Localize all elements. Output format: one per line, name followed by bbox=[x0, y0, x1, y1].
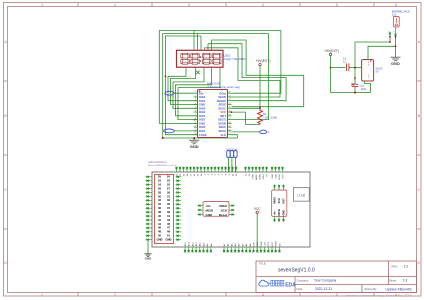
svg-text:SCK: SCK bbox=[221, 208, 228, 212]
svg-text:TITLE:: TITLE: bbox=[259, 262, 267, 266]
svg-text:RST: RST bbox=[272, 241, 274, 246]
svg-text:C: C bbox=[417, 188, 420, 192]
svg-text:CLK: CLK bbox=[233, 149, 238, 151]
svg-text:2: 2 bbox=[114, 293, 116, 297]
svg-text:IORF: IORF bbox=[276, 240, 278, 246]
svg-text:29: 29 bbox=[167, 190, 170, 194]
ARDUINOMEGA top pin stubs and labels bbox=[175, 167, 283, 173]
svg-text:17: 17 bbox=[228, 118, 230, 120]
svg-text:Your Company: Your Company bbox=[314, 279, 337, 283]
wire bbox=[207, 44, 209, 49]
svg-text:12V: 12V bbox=[392, 13, 397, 16]
svg-text:43: 43 bbox=[167, 218, 170, 222]
connector USB bbox=[294, 188, 310, 202]
svg-text:MISO: MISO bbox=[273, 197, 277, 204]
net port CS (flag above Arduino) bbox=[230, 149, 234, 158]
svg-text:3: 3 bbox=[188, 293, 190, 297]
svg-text:27: 27 bbox=[167, 186, 170, 190]
svg-text:(Chip for driving seven seg): (Chip for driving seven seg) bbox=[207, 85, 240, 89]
logo JLC EDA bbox=[259, 280, 296, 288]
svg-text:MOSI: MOSI bbox=[206, 208, 214, 212]
junction bbox=[194, 119, 196, 121]
wire bbox=[159, 29, 281, 31]
svg-text:SCK: SCK bbox=[275, 173, 277, 178]
svg-text:1: 1 bbox=[41, 3, 43, 7]
svg-text:20: 20 bbox=[228, 107, 230, 109]
wire bbox=[165, 76, 197, 134]
svg-text:GND: GND bbox=[166, 237, 172, 241]
wire bbox=[173, 69, 204, 108]
svg-text:MOSI: MOSI bbox=[277, 209, 281, 216]
svg-text:24: 24 bbox=[158, 182, 161, 186]
svg-text:DIG6: DIG6 bbox=[199, 106, 206, 110]
svg-text:30: 30 bbox=[158, 194, 161, 198]
svg-text:6: 6 bbox=[195, 110, 196, 112]
svg-text:oshwhub.com/kitten/sevenseg |: oshwhub.com/kitten/sevenseg | Powered By… bbox=[345, 294, 412, 298]
wire bbox=[205, 48, 281, 97]
header P1 pin stubs bbox=[146, 176, 182, 241]
svg-text:LOAD: LOAD bbox=[199, 133, 207, 137]
junction bbox=[354, 77, 356, 79]
svg-text:+5v: +5v bbox=[206, 204, 211, 208]
net port DIN (oval flag) bbox=[165, 91, 174, 95]
svg-text:21: 21 bbox=[228, 103, 230, 105]
svg-text:ISET: ISET bbox=[220, 114, 226, 118]
wire bbox=[178, 69, 220, 119]
label LED1 bbox=[224, 53, 248, 61]
junction bbox=[389, 36, 391, 38]
svg-text:5: 5 bbox=[336, 3, 338, 7]
wire bbox=[231, 158, 233, 173]
junction bbox=[389, 41, 391, 43]
svg-text:MAX7219: MAX7219 bbox=[207, 82, 220, 86]
svg-text:4: 4 bbox=[262, 3, 264, 7]
svg-text:SCL0: SCL0 bbox=[263, 173, 265, 179]
svg-text:36: 36 bbox=[158, 206, 161, 210]
power flag +5V(EXT) bbox=[256, 59, 271, 66]
junction bbox=[162, 137, 164, 139]
svg-text:D: D bbox=[4, 261, 7, 265]
svg-text:22: 22 bbox=[228, 99, 230, 101]
connector CN1 BARRELJACK bbox=[388, 9, 411, 33]
svg-text:SDA0: SDA0 bbox=[258, 173, 261, 179]
svg-text:5: 5 bbox=[336, 293, 338, 297]
junction bbox=[395, 45, 397, 47]
net port CLK (flag above Arduino) bbox=[233, 149, 238, 158]
wire bbox=[194, 135, 237, 138]
svg-text:45: 45 bbox=[167, 222, 170, 226]
label U1 MAX7219 bbox=[207, 82, 240, 90]
svg-text:SEGE: SEGE bbox=[219, 103, 227, 107]
svg-text:GND: GND bbox=[157, 237, 163, 241]
svg-text:22: 22 bbox=[158, 179, 161, 183]
svg-text:41: 41 bbox=[167, 214, 170, 218]
svg-text:9: 9 bbox=[195, 122, 196, 124]
svg-text:RST: RST bbox=[282, 198, 286, 204]
svg-text:DIG4: DIG4 bbox=[199, 99, 206, 103]
svg-text:16: 16 bbox=[228, 122, 230, 124]
label U3 SOHC 5V bbox=[376, 67, 383, 73]
svg-text:51: 51 bbox=[167, 234, 170, 238]
svg-text:AREF: AREF bbox=[255, 173, 258, 179]
svg-text:37: 37 bbox=[167, 206, 170, 210]
svg-text:sevenSegV1.0.0: sevenSegV1.0.0 bbox=[278, 267, 315, 273]
svg-text:14: 14 bbox=[228, 129, 230, 131]
svg-text:VCC: VCC bbox=[254, 207, 261, 211]
wire bbox=[355, 42, 390, 68]
junction bbox=[231, 111, 233, 113]
svg-text:GND: GND bbox=[391, 61, 400, 66]
wire bbox=[395, 37, 397, 55]
svg-text:5V: 5V bbox=[376, 70, 379, 73]
svg-text:4 digit 7 SEGMENT: 4 digit 7 SEGMENT bbox=[224, 57, 248, 61]
svg-text:12: 12 bbox=[194, 133, 196, 135]
wire bbox=[354, 68, 356, 84]
watermark url bbox=[345, 294, 412, 298]
wire bbox=[330, 56, 332, 93]
wire bbox=[227, 158, 229, 173]
svg-text:44: 44 bbox=[158, 222, 161, 226]
svg-text:SEGC: SEGC bbox=[218, 106, 226, 110]
svg-text:Reset: Reset bbox=[219, 213, 227, 217]
svg-text:1: 1 bbox=[195, 92, 196, 94]
wire bbox=[232, 33, 269, 119]
wire bbox=[168, 69, 198, 100]
junction bbox=[395, 36, 397, 38]
svg-text:SEGB: SEGB bbox=[218, 121, 226, 125]
svg-text:DIG7: DIG7 bbox=[199, 118, 206, 122]
svg-text:5V: 5V bbox=[158, 175, 161, 179]
svg-text:42: 42 bbox=[158, 218, 161, 222]
svg-text:MISO: MISO bbox=[219, 204, 227, 208]
wire bbox=[163, 137, 195, 139]
svg-text:Uptown Kitten453: Uptown Kitten453 bbox=[386, 287, 412, 291]
wire bbox=[162, 33, 164, 138]
svg-text:ARDUINOMEGA: ARDUINOMEGA bbox=[148, 161, 167, 164]
junction bbox=[354, 92, 356, 94]
svg-text:DOut: DOut bbox=[219, 91, 226, 95]
svg-text:GND: GND bbox=[261, 241, 263, 246]
junction bbox=[330, 67, 332, 69]
label R1 bbox=[263, 112, 277, 120]
svg-text:2: 2 bbox=[195, 95, 196, 97]
wire bbox=[232, 131, 260, 133]
wire bbox=[174, 92, 193, 94]
svg-text:8: 8 bbox=[195, 118, 196, 120]
junction bbox=[165, 75, 167, 77]
svg-text:C: C bbox=[4, 188, 7, 192]
ground GND2 bbox=[144, 252, 151, 256]
svg-text:GND: GND bbox=[252, 174, 254, 179]
svg-text:1.0: 1.0 bbox=[404, 265, 409, 269]
wire bbox=[349, 67, 362, 69]
wire bbox=[234, 158, 236, 173]
wire bbox=[232, 112, 261, 124]
title block text bbox=[259, 262, 412, 292]
svg-text:Arduino-MEGA2560_rev3-ed...: Arduino-MEGA2560_rev3-ed... bbox=[148, 164, 178, 167]
svg-text:VIN: VIN bbox=[253, 242, 255, 246]
net port DIN (flag above Arduino) bbox=[227, 149, 231, 158]
svg-text:DIG2: DIG2 bbox=[199, 110, 206, 114]
wire bbox=[389, 37, 391, 42]
svg-text:25: 25 bbox=[167, 182, 170, 186]
svg-text:7: 7 bbox=[195, 114, 196, 116]
svg-text:28: 28 bbox=[158, 190, 161, 194]
wire bbox=[354, 87, 356, 93]
net port DOUT (oval flag, net 4) bbox=[260, 130, 270, 134]
header ICSP2 (right, vertical) bbox=[272, 185, 287, 223]
svg-text:5V: 5V bbox=[167, 175, 170, 179]
svg-text:DIG5: DIG5 bbox=[199, 125, 206, 129]
svg-text:5: 5 bbox=[195, 107, 196, 109]
svg-text:SCK: SCK bbox=[277, 198, 281, 204]
wire bbox=[147, 241, 149, 253]
svg-text:3: 3 bbox=[195, 99, 196, 101]
junction bbox=[259, 107, 261, 109]
wire bbox=[232, 30, 281, 93]
wire bbox=[200, 36, 202, 49]
svg-text:+5v: +5v bbox=[273, 211, 277, 216]
svg-text:GND: GND bbox=[199, 103, 205, 107]
svg-text:EDA: EDA bbox=[285, 282, 296, 288]
svg-text:SEGD: SEGD bbox=[218, 95, 226, 99]
wire bbox=[212, 40, 304, 107]
svg-text:1: 1 bbox=[41, 293, 43, 297]
regulator U3 78M05 bbox=[358, 56, 374, 82]
svg-text:VCC: VCC bbox=[220, 110, 226, 114]
svg-text:15: 15 bbox=[228, 126, 230, 128]
wire bbox=[364, 81, 370, 93]
svg-text:38: 38 bbox=[158, 210, 161, 214]
svg-text:2: 2 bbox=[368, 77, 369, 79]
svg-text:4: 4 bbox=[262, 293, 264, 297]
driver IC U1 MAX7219 bbox=[194, 90, 232, 138]
svg-text:Drawn By:: Drawn By: bbox=[365, 287, 378, 291]
ARDUINOMEGA bottom pin stubs and labels bbox=[184, 247, 281, 253]
svg-text:SEGF: SEGF bbox=[219, 125, 227, 129]
svg-text:10uF: 10uF bbox=[361, 88, 367, 91]
svg-text:GND: GND bbox=[206, 213, 214, 217]
4-digit 7-segment display LED1 bbox=[177, 49, 224, 70]
svg-text:31: 31 bbox=[167, 194, 170, 198]
svg-text:1/1: 1/1 bbox=[403, 279, 408, 283]
svg-text:Company:: Company: bbox=[297, 278, 310, 282]
svg-text:13: 13 bbox=[228, 133, 230, 135]
junction bbox=[354, 67, 356, 69]
wire output rail bbox=[331, 92, 371, 94]
resistor R1 bbox=[258, 108, 263, 125]
svg-text:+5V(EXT): +5V(EXT) bbox=[256, 59, 271, 63]
svg-text:3: 3 bbox=[188, 3, 190, 7]
wire bbox=[163, 32, 269, 34]
power flag VCC bbox=[254, 207, 261, 214]
svg-text:40: 40 bbox=[158, 214, 161, 218]
wire bbox=[174, 130, 197, 132]
capacitor C1 bbox=[331, 63, 362, 71]
ground GND1 bbox=[189, 138, 199, 144]
header ICSP1 (middle) bbox=[198, 202, 235, 217]
svg-text:34: 34 bbox=[158, 202, 161, 206]
wire bbox=[208, 44, 286, 101]
svg-text:4: 4 bbox=[368, 64, 369, 66]
svg-text:24: 24 bbox=[228, 92, 230, 94]
svg-text:CLK: CLK bbox=[220, 133, 226, 137]
net port LOAD (oval flag) bbox=[164, 129, 175, 133]
wire bbox=[197, 33, 199, 48]
wire bbox=[193, 30, 195, 48]
svg-text:DIG0: DIG0 bbox=[199, 95, 206, 99]
svg-text:USB: USB bbox=[297, 193, 305, 198]
wire bbox=[159, 30, 197, 123]
svg-text:SEGA: SEGA bbox=[218, 129, 226, 133]
svg-text:35: 35 bbox=[167, 202, 170, 206]
wire bbox=[368, 46, 396, 58]
svg-text:GND: GND bbox=[145, 257, 151, 261]
label C1 bbox=[343, 56, 347, 63]
svg-text:49: 49 bbox=[167, 230, 170, 234]
svg-text:4: 4 bbox=[195, 103, 196, 105]
svg-text:DIG3: DIG3 bbox=[199, 114, 206, 118]
wire bbox=[259, 66, 261, 108]
svg-text:6: 6 bbox=[395, 3, 397, 7]
svg-text:+5V: +5V bbox=[265, 242, 267, 246]
svg-text:46: 46 bbox=[158, 226, 161, 230]
svg-text:GND: GND bbox=[272, 174, 274, 179]
svg-text:REV:: REV: bbox=[392, 264, 398, 268]
svg-text:2022-12-21: 2022-12-21 bbox=[315, 287, 332, 291]
title block bbox=[256, 261, 417, 293]
wire bbox=[256, 214, 258, 253]
wire bbox=[165, 36, 201, 76]
svg-text:SEGG: SEGG bbox=[218, 118, 226, 122]
svg-text:18: 18 bbox=[228, 114, 230, 116]
no-connect marker on display bbox=[196, 71, 200, 75]
svg-text:33: 33 bbox=[167, 198, 170, 202]
svg-text:GND: GND bbox=[190, 144, 199, 149]
svg-text:47: 47 bbox=[167, 226, 170, 230]
capacitor C2 bbox=[351, 68, 358, 93]
svg-text:2: 2 bbox=[114, 3, 116, 7]
label C2 bbox=[361, 84, 367, 91]
svg-text:DIG1: DIG1 bbox=[199, 129, 206, 133]
svg-text:RST: RST bbox=[282, 173, 284, 178]
svg-text:LED1: LED1 bbox=[224, 53, 232, 57]
svg-text:Sheet:: Sheet: bbox=[389, 278, 397, 282]
wire bbox=[389, 28, 397, 37]
wire bbox=[171, 69, 198, 104]
module ARDUINOMEGA board outline bbox=[152, 172, 310, 247]
ground GND3 bbox=[391, 55, 401, 61]
svg-text:19: 19 bbox=[228, 110, 230, 112]
svg-text:GND: GND bbox=[282, 210, 286, 216]
svg-text:GND: GND bbox=[199, 121, 205, 125]
svg-text:10: 10 bbox=[194, 126, 196, 128]
module U2 ARDUINOMEGA label bbox=[148, 161, 178, 167]
svg-text:23: 23 bbox=[167, 179, 170, 183]
svg-text:Date:: Date: bbox=[297, 287, 304, 291]
svg-text:26: 26 bbox=[158, 186, 161, 190]
junction bbox=[193, 137, 195, 139]
svg-text:SEGDP: SEGDP bbox=[217, 99, 227, 103]
wire bbox=[204, 48, 206, 49]
wire bbox=[176, 69, 212, 116]
svg-text:D: D bbox=[417, 261, 420, 265]
wire bbox=[232, 107, 261, 109]
wire bbox=[331, 67, 346, 69]
svg-text:23: 23 bbox=[228, 95, 230, 97]
power flag +5V(EXT) 2 bbox=[324, 49, 339, 56]
wire bbox=[211, 40, 213, 49]
svg-text:32: 32 bbox=[158, 198, 161, 202]
svg-text:~10k~100k: ~10k~100k bbox=[263, 116, 277, 120]
svg-text:48: 48 bbox=[158, 230, 161, 234]
svg-text:NC: NC bbox=[279, 243, 281, 247]
svg-text:39: 39 bbox=[167, 210, 170, 214]
svg-text:+5V(EXT): +5V(EXT) bbox=[324, 49, 339, 53]
svg-text:MISO: MISO bbox=[279, 174, 281, 180]
svg-text:50: 50 bbox=[158, 234, 161, 238]
header P1 left dual-row pin numbers bbox=[155, 175, 174, 244]
